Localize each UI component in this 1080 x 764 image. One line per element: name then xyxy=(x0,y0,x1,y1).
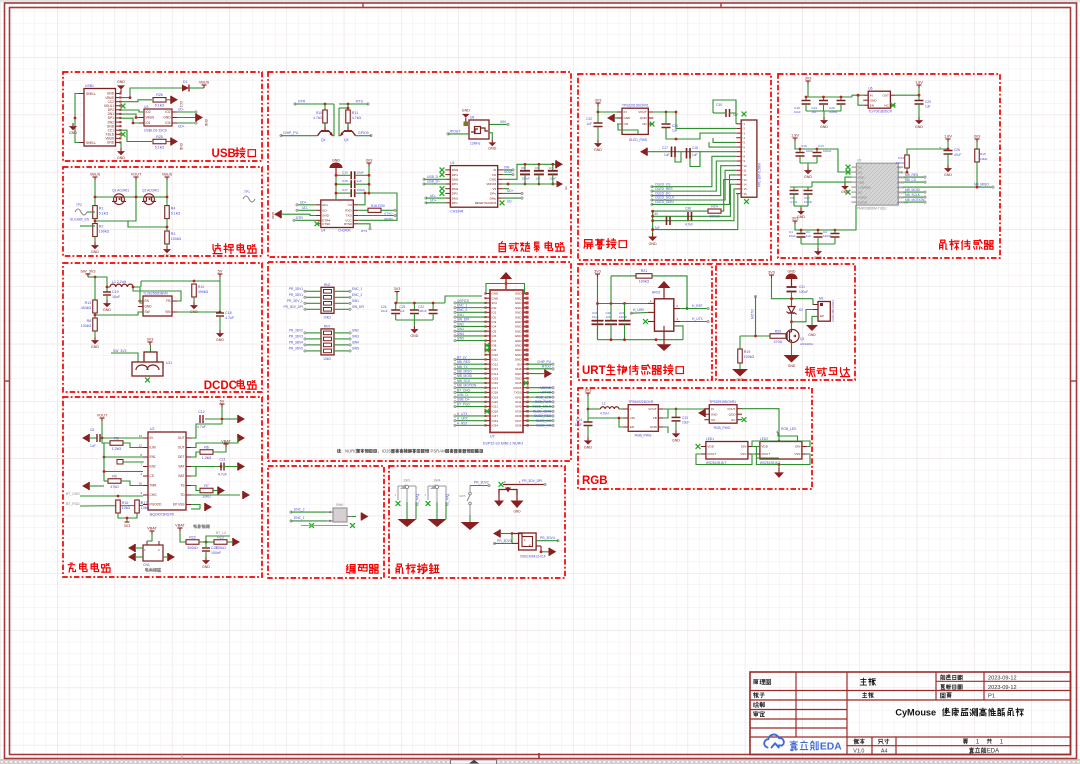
net in RN7 0 xyxy=(289,329,303,333)
svg-text:1uF: 1uF xyxy=(672,129,678,133)
pad DTR xyxy=(294,103,297,106)
pad xi xyxy=(512,169,515,172)
junction jr14 xyxy=(906,171,909,174)
wire C4 drop bottom xyxy=(834,230,836,234)
wire vout rail rgb xyxy=(663,408,705,410)
left net label BT_PGD xyxy=(457,402,470,406)
capacitor C4 xyxy=(823,230,840,238)
left pad 19 xyxy=(454,377,457,380)
svg-text:PR_3DV2: PR_3DV2 xyxy=(289,329,303,333)
svg-text:GND: GND xyxy=(163,254,171,258)
svg-text:IO9: IO9 xyxy=(492,348,497,352)
wire u4 ud+ xyxy=(297,204,316,206)
wire enc2 wire xyxy=(291,511,328,513)
svg-text:XIN: XIN xyxy=(504,165,510,169)
svg-text:UD+: UD+ xyxy=(300,200,307,204)
wire u5 gnd wire xyxy=(845,177,851,183)
port cn1 left xyxy=(128,544,135,552)
svg-text:IN: IN xyxy=(870,93,873,97)
svg-text:R14: R14 xyxy=(898,156,904,160)
title block table lines xyxy=(750,672,1071,755)
svg-text:RGB_PWR: RGB_PWR xyxy=(535,400,552,404)
block label screen interface xyxy=(584,239,626,250)
junction jscr1 xyxy=(597,111,600,114)
junction jvin xyxy=(219,311,222,314)
net label OLED_SDIN xyxy=(655,200,674,204)
svg-text:100kΩ: 100kΩ xyxy=(709,215,720,219)
net out RN2 0 xyxy=(352,287,363,291)
wire top rail xyxy=(141,280,220,282)
MCU module name xyxy=(483,441,523,445)
power flag 3V3 right sensor xyxy=(974,135,981,143)
svg-text:FB: FB xyxy=(653,416,657,420)
junction jq2 xyxy=(166,196,169,199)
svg-text:1.8V: 1.8V xyxy=(944,135,952,139)
wire 3v3 to switch xyxy=(150,345,152,352)
wire left rail screen xyxy=(652,211,654,233)
svg-text:D1: D1 xyxy=(183,80,187,84)
wire bottom rail urt xyxy=(598,339,684,341)
u5 pad MB_RES xyxy=(924,176,927,179)
pad RN7 in 3 xyxy=(304,350,307,353)
wire C29 top urt xyxy=(624,304,626,321)
svg-text:VOUT: VOUT xyxy=(727,407,736,411)
net label MOTO xyxy=(751,309,755,319)
left net label MB_RES xyxy=(457,360,470,364)
capacitor C33 rgb xyxy=(672,416,690,425)
capacitor C10 xyxy=(804,191,813,205)
svg-text:DTR: DTR xyxy=(296,216,303,220)
net label XOUT u1 xyxy=(504,170,513,174)
pad ud+u1 xyxy=(425,202,428,205)
capacitor C18 xyxy=(216,311,235,320)
pad u9 tr xyxy=(557,539,560,542)
svg-text:R21: R21 xyxy=(641,269,648,273)
net label PR_3DV3 xyxy=(497,539,512,543)
svg-text:IO16: IO16 xyxy=(492,381,499,385)
svg-text:IO34: IO34 xyxy=(492,424,499,428)
left pad 20 xyxy=(454,382,457,385)
wire q1-q2 bridge xyxy=(124,196,144,198)
wire VBUS rail down xyxy=(94,180,96,206)
svg-text:UTXD: UTXD xyxy=(384,211,393,215)
wire bat wire xyxy=(191,466,221,468)
svg-text:USB_D+: USB_D+ xyxy=(427,180,440,184)
junction jurt d xyxy=(610,338,613,341)
svg-text:OLED_SCLK: OLED_SCLK xyxy=(532,405,552,409)
junction jcap2t xyxy=(551,163,554,166)
svg-text:H_UTX: H_UTX xyxy=(457,412,468,416)
port left pin7 xyxy=(640,148,647,156)
capacitor C31 xyxy=(787,285,809,294)
wire left pin wire 19 xyxy=(455,377,486,379)
svg-text:DMu: DMu xyxy=(490,196,497,200)
svg-text:R12: R12 xyxy=(198,285,205,289)
svg-text:NC: NC xyxy=(884,103,889,107)
nc enc b xyxy=(350,523,355,528)
junction jp2 xyxy=(675,111,678,114)
u5 net MB_RES xyxy=(905,173,918,177)
left net label BT_CHG xyxy=(457,388,470,392)
pad dtr u4 xyxy=(293,219,296,222)
svg-text:MB_CS: MB_CS xyxy=(905,178,916,182)
net in RN2 2 xyxy=(287,299,303,303)
net RGB_LED xyxy=(781,427,797,431)
svg-text:ZJ2C10814Z01F: ZJ2C10814Z01F xyxy=(831,299,835,322)
nc u5 6 xyxy=(846,190,851,195)
charger IC U2 BQ24073RGTR xyxy=(139,427,191,517)
net label DTR u4 xyxy=(296,216,303,220)
pad u9 bl xyxy=(493,542,496,545)
svg-text:NC: NC xyxy=(858,170,862,174)
svg-text:TXD: TXD xyxy=(346,214,353,218)
svg-text:OLED_RES: OLED_RES xyxy=(534,414,551,418)
wire caps left rail xyxy=(335,175,337,200)
power switch U11 xyxy=(132,352,172,376)
block border mouse sensor xyxy=(778,74,1000,258)
net label H_UTX xyxy=(692,317,704,321)
svg-text:C33: C33 xyxy=(682,416,688,420)
left pad 22 xyxy=(454,391,457,394)
svg-text:C32: C32 xyxy=(586,117,592,121)
wire q1 left xyxy=(95,196,114,198)
wire fb up xyxy=(140,281,142,287)
svg-text:EN: EN xyxy=(630,425,634,429)
pad d3 xyxy=(544,483,547,486)
label battery level xyxy=(194,525,210,529)
net label JPOUT xyxy=(449,129,461,133)
junction dn node xyxy=(132,122,135,125)
svg-text:4.7uF: 4.7uF xyxy=(225,316,235,320)
wire u9 tl drop xyxy=(511,534,513,541)
svg-text:SW1: SW1 xyxy=(352,299,359,303)
svg-text:3V3: 3V3 xyxy=(594,270,601,274)
wire cross 2 xyxy=(339,108,341,136)
net out RN7 1 xyxy=(352,335,359,339)
svg-text:R4: R4 xyxy=(171,207,176,211)
ground bottom screen xyxy=(648,233,657,246)
port encoder xyxy=(362,513,369,521)
svg-text:TXD0: TXD0 xyxy=(514,391,522,395)
svg-text:3V3: 3V3 xyxy=(124,524,130,528)
svg-text:USB1: USB1 xyxy=(85,84,94,88)
switch SW5 xyxy=(467,486,471,516)
wire DN1 to U3 xyxy=(121,114,140,118)
svg-text:VOUT: VOUT xyxy=(97,414,108,418)
svg-text:IO11: IO11 xyxy=(492,358,499,362)
svg-text:4.7uF: 4.7uF xyxy=(218,473,228,477)
resistor R23 xyxy=(214,535,227,550)
svg-text:BT_PGD: BT_PGD xyxy=(66,502,80,506)
wire right pin wire 22 xyxy=(528,391,554,393)
pad RN2 in 0 xyxy=(304,290,307,293)
svg-text:10uF: 10uF xyxy=(357,170,364,174)
nc DM4 xyxy=(440,168,445,173)
svg-text:100nF: 100nF xyxy=(418,309,427,313)
svg-text:C13: C13 xyxy=(818,144,824,148)
svg-text:SW_3V3: SW_3V3 xyxy=(113,349,126,353)
power flag 3V3 motor xyxy=(768,271,775,279)
svg-text:XSDIO: XSDIO xyxy=(858,195,868,199)
pad RN7 in 1 xyxy=(304,338,307,341)
svg-text:BT_LV: BT_LV xyxy=(216,531,227,535)
net label H_RST xyxy=(692,304,703,308)
svg-text:PR_3DV_DPI: PR_3DV_DPI xyxy=(522,479,542,483)
wire left pin wire 29 xyxy=(455,424,486,426)
junction jvdd xyxy=(507,183,510,186)
port CC1 label xyxy=(179,143,183,151)
inductor L2 xyxy=(600,402,619,416)
svg-text:EP VSS: EP VSS xyxy=(173,503,184,507)
svg-text:SW1: SW1 xyxy=(457,313,464,317)
svg-text:1.8V: 1.8V xyxy=(915,81,923,85)
svg-text:ENC_1: ENC_1 xyxy=(294,516,305,520)
junction jb1 xyxy=(103,470,106,473)
net label DTR xyxy=(298,100,306,104)
svg-text:4.7uF: 4.7uF xyxy=(685,223,693,227)
net label BT_LV xyxy=(216,531,227,535)
wire R10 drop xyxy=(324,104,326,110)
svg-text:VOUT: VOUT xyxy=(131,173,142,177)
svg-text:DTR: DTR xyxy=(298,100,306,104)
ground SW4 xyxy=(428,519,447,527)
capacitor C16 xyxy=(796,144,814,156)
right net label OLED_SCLK xyxy=(532,405,552,409)
left pad 29 xyxy=(454,424,457,427)
svg-text:C26: C26 xyxy=(954,148,960,152)
svg-text:IO38: IO38 xyxy=(515,414,522,418)
net label SLI1A80_EN xyxy=(70,218,90,222)
svg-text:ON: ON xyxy=(711,418,716,422)
svg-text:CC2: CC2 xyxy=(179,101,183,108)
capacitor C16 xyxy=(342,179,362,188)
wire switch mid wire SW4 xyxy=(436,502,438,519)
MOSFET Q3 AO3400A xyxy=(786,330,813,347)
wire caps right rail xyxy=(368,166,370,193)
block label encoder xyxy=(347,565,378,574)
wire dmu wire xyxy=(503,197,522,199)
svg-text:QOD: QOD xyxy=(640,116,648,120)
svg-text:100nF: 100nF xyxy=(211,551,222,555)
junction jurt a xyxy=(596,302,599,305)
svg-text:GND: GND xyxy=(649,242,657,246)
junction jmcucap0 xyxy=(394,302,397,305)
port right c12 xyxy=(238,415,245,423)
wire det wire xyxy=(191,452,200,457)
nc SW4 xyxy=(426,501,431,506)
net label USB_D- xyxy=(427,175,439,179)
R14 labels xyxy=(896,156,905,165)
wire c18 loop xyxy=(690,152,700,167)
svg-text:47kΩ: 47kΩ xyxy=(110,485,119,489)
wire C13 down mid xyxy=(816,156,818,163)
svg-text:GND: GND xyxy=(163,116,171,120)
svg-text:SW4: SW4 xyxy=(457,332,464,336)
wire en loop rgb xyxy=(619,418,623,427)
wire C9 drop left xyxy=(793,187,795,191)
wire to L1 xyxy=(107,286,110,288)
junction jmcucap1 xyxy=(413,302,416,305)
wire c34 down xyxy=(666,128,676,140)
wire bottom to sensor xyxy=(834,205,856,230)
svg-text:V5: V5 xyxy=(492,187,496,191)
svg-text:U7: U7 xyxy=(490,434,495,438)
svg-text:2023-09-12: 2023-09-12 xyxy=(988,676,1017,682)
svg-text:UD-: UD- xyxy=(302,206,308,210)
wire pin5 stub xyxy=(713,138,736,142)
ground under C26 xyxy=(944,165,952,177)
svg-text:R1: R1 xyxy=(99,207,104,211)
svg-text:NC: NC xyxy=(858,190,862,194)
svg-text:3V3: 3V3 xyxy=(805,77,812,81)
svg-text:SW: SW xyxy=(145,310,150,314)
svg-text:10uF: 10uF xyxy=(592,315,599,319)
svg-text:TPS22919DCKR1: TPS22919DCKR1 xyxy=(709,400,736,404)
junction jc0l xyxy=(335,174,338,177)
svg-text:10uF: 10uF xyxy=(381,309,388,313)
capacitor C28 xyxy=(605,311,617,324)
svg-text:ESP32-S3 MINI-1 NURO: ESP32-S3 MINI-1 NURO xyxy=(483,441,523,445)
wire C15 left xyxy=(336,174,351,176)
junction jen rgb xyxy=(618,417,621,420)
wire enc1 wire xyxy=(291,520,328,522)
svg-text:MTDO: MTDO xyxy=(542,365,552,369)
wire m1 pin2 wire xyxy=(792,310,819,322)
capacitor C12 xyxy=(197,410,207,429)
left net label H_RST xyxy=(457,421,468,425)
net in RN2 0 xyxy=(289,287,303,291)
pad RN7 in 0 xyxy=(304,332,307,335)
svg-text:A4: A4 xyxy=(881,748,888,754)
svg-text:GND: GND xyxy=(515,306,523,310)
svg-text:U11: U11 xyxy=(166,361,172,365)
wire r15 top xyxy=(976,142,978,149)
junction jbat xyxy=(220,465,223,468)
wire r13-r8 xyxy=(94,313,96,318)
svg-text:1.2kΩ: 1.2kΩ xyxy=(112,447,122,451)
wire vss wire xyxy=(191,505,200,510)
svg-text:XIN: XIN xyxy=(500,120,506,124)
svg-text:PR_3DV_L: PR_3DV_L xyxy=(287,299,303,303)
net in RN7 3 xyxy=(289,347,303,351)
wire v5 wire xyxy=(503,188,509,190)
net label BT_PGD xyxy=(66,502,80,506)
right pad 22 xyxy=(552,391,555,394)
junction jtr xyxy=(193,280,196,283)
USB-serial IC U4 CH340K xyxy=(316,200,359,233)
nc u14 xyxy=(742,417,747,422)
svg-text:IO18: IO18 xyxy=(492,391,499,395)
left pad 18 xyxy=(454,372,457,375)
wire r6 to vbat xyxy=(213,447,226,452)
power flag 5V chg xyxy=(220,400,225,408)
net label OLED_PWD xyxy=(629,138,648,142)
motor conn name xyxy=(831,299,835,322)
net label XIN u1 xyxy=(504,165,510,169)
net label RTS u4 xyxy=(361,229,367,233)
svg-text:ENC_2: ENC_2 xyxy=(294,507,305,511)
capacitor C29 xyxy=(619,311,631,324)
left net label H_UTX xyxy=(457,412,468,416)
svg-text:300kΩ: 300kΩ xyxy=(187,546,198,550)
no-connect XSLU1 xyxy=(121,104,126,109)
wire en1 wire xyxy=(104,456,143,458)
wire R11 to Q5 xyxy=(347,123,349,127)
wire pgd wire xyxy=(80,505,143,508)
wire port to u14 stub xyxy=(663,408,698,410)
svg-text:UD-: UD- xyxy=(507,200,513,204)
svg-text:BAT: BAT xyxy=(179,474,185,478)
svg-text:IO4: IO4 xyxy=(492,325,497,329)
boost converter U13 xyxy=(623,400,663,431)
power flag top U7 xyxy=(500,272,512,290)
svg-text:H_UTX: H_UTX xyxy=(692,317,704,321)
wire C24 drop mcu xyxy=(395,303,397,310)
pad XIN xyxy=(507,123,510,126)
wire r23 to port xyxy=(227,541,233,543)
left net label MB_SCK xyxy=(457,379,471,383)
wire wire OLED_CS xyxy=(652,156,736,186)
wire C10 down left xyxy=(807,194,809,206)
port CC2 arrow xyxy=(171,96,178,104)
svg-text:1uF: 1uF xyxy=(606,315,611,319)
wire tp2 wire xyxy=(87,211,95,213)
pad RN2 in 2 xyxy=(304,302,307,305)
wire sw3v3 to left rail xyxy=(88,276,95,278)
svg-text:DIN: DIN xyxy=(741,445,746,449)
net label XIN xyxy=(500,120,506,124)
capacitor C20 xyxy=(829,101,846,115)
pad xo xyxy=(512,173,515,176)
svg-text:499kΩ: 499kΩ xyxy=(198,290,209,294)
u9 right pin2 xyxy=(536,546,541,552)
power flag VBAT chg xyxy=(221,440,231,448)
svg-text:1uF: 1uF xyxy=(587,122,593,126)
svg-text:5.1kΩ: 5.1kΩ xyxy=(171,212,181,216)
svg-text:GND: GND xyxy=(322,214,330,218)
wire q3 source xyxy=(791,342,793,355)
svg-text:IO12: IO12 xyxy=(492,362,499,366)
wire pin7 wire xyxy=(647,151,736,153)
wire left pin wire 3 xyxy=(455,302,486,304)
wire C22 drop mcu xyxy=(432,303,434,310)
capacitor C21 xyxy=(812,101,829,115)
svg-text:GND: GND xyxy=(515,325,523,329)
svg-text:UD-: UD- xyxy=(430,194,436,198)
crystal unit U8 xyxy=(469,116,489,146)
right pad 16 xyxy=(552,363,555,366)
svg-text:VDD: VDD xyxy=(858,180,864,184)
svg-text:SW5: SW5 xyxy=(459,494,466,498)
capacitor C6 xyxy=(534,166,544,181)
port divider xyxy=(233,538,240,546)
resistor sym en xyxy=(117,460,123,465)
port u9 topleft xyxy=(493,530,500,538)
wire vdd rail xyxy=(503,183,557,185)
wire R11 drop xyxy=(347,104,349,110)
svg-text:SW6: SW6 xyxy=(336,503,343,507)
wire left pin wire 18 xyxy=(455,373,486,375)
left net label ENC_2 xyxy=(457,308,468,312)
ground under R8 xyxy=(91,337,99,349)
wire usbd+ wire xyxy=(424,183,445,185)
wire u5 right wire MB_CS xyxy=(903,181,925,183)
d3 top wire xyxy=(503,484,544,486)
resistor network RN7 xyxy=(305,324,350,361)
zener diode D2 xyxy=(787,307,804,315)
wire c14 down xyxy=(587,426,589,438)
wire 3v3 down screen xyxy=(597,106,599,123)
